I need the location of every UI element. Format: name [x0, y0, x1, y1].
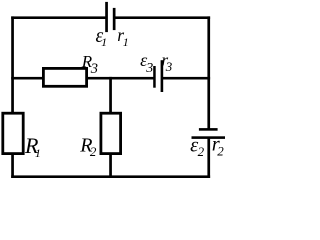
wire middle left segment [11, 77, 44, 80]
battery E2 (eps2 r2) long plate [192, 136, 226, 139]
battery E1 (eps1 r1) short plate [113, 8, 116, 30]
wire bottom [11, 175, 210, 178]
wire left upper [11, 16, 14, 113]
svg-text:1: 1 [35, 146, 41, 160]
svg-text:1: 1 [101, 35, 107, 49]
wire middle center segment [87, 77, 155, 80]
svg-text:2: 2 [90, 144, 97, 159]
resistor R1 box [3, 113, 23, 153]
svg-text:2: 2 [198, 144, 205, 159]
svg-text:3: 3 [165, 59, 173, 74]
resistor R3 box [43, 68, 86, 86]
svg-text:2: 2 [217, 144, 224, 159]
wire right upper [207, 16, 210, 128]
resistor R2 box [101, 113, 121, 153]
svg-text:3: 3 [90, 61, 98, 77]
battery E3 (eps3 r3) short plate [153, 66, 156, 88]
wire middle right segment [162, 77, 210, 80]
svg-text:1: 1 [123, 35, 129, 49]
svg-text:3: 3 [145, 61, 153, 76]
wire top-left segment [11, 16, 106, 19]
wire top-right segment [114, 16, 210, 19]
wire R2 branch upper (junction on middle wire) [109, 77, 112, 113]
battery E1 (eps1 r1) long plate [105, 2, 108, 32]
battery E3 (eps3 r3) long plate [161, 60, 164, 92]
wire left lower [11, 154, 14, 178]
wire right lower [207, 138, 210, 178]
wire R2 branch lower [109, 154, 112, 178]
battery E2 (eps2 r2) short plate [199, 128, 218, 131]
